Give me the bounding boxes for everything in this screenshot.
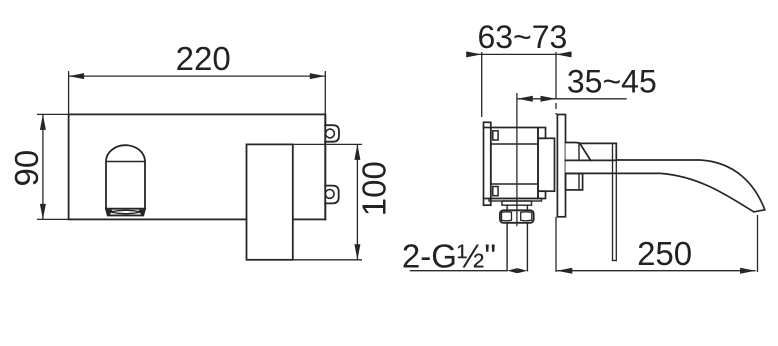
- dimension texts: [8, 19, 692, 274]
- arrow dim 100 top: [354, 144, 360, 160]
- arrow dim 35~45 right: [541, 96, 557, 102]
- arrow dim 100 bottom: [354, 244, 360, 259]
- body tab top: [493, 131, 498, 140]
- plate right edge over tabs: [324, 114, 326, 219]
- aerator lens: [110, 210, 141, 213]
- body tab bottom: [493, 187, 498, 196]
- body step top: [538, 128, 546, 139]
- svg-text:90: 90: [8, 150, 45, 187]
- arrow dim 220 left: [69, 73, 85, 79]
- svg-text:63~73: 63~73: [477, 19, 567, 55]
- wall escutcheon plate side view: [557, 115, 565, 217]
- svg-text:250: 250: [637, 235, 692, 272]
- handle base: [566, 143, 591, 161]
- dim 220 line: [69, 75, 326, 77]
- dim 90 line: [42, 114, 44, 219]
- collar: [502, 201, 532, 205]
- aerator dark corner left: [107, 210, 113, 215]
- arrow dim 250 left: [557, 268, 573, 274]
- wall plate front view: [69, 114, 326, 219]
- aerator band: [106, 209, 145, 216]
- svg-text:100: 100: [356, 161, 393, 216]
- leader 2-G1/2: [410, 270, 507, 272]
- mounting hole top: [326, 129, 335, 138]
- arrow pipe width left: [507, 268, 517, 273]
- dim 63~73 line: [467, 53, 572, 55]
- mounting tab bottom: [325, 186, 339, 204]
- hex nut: [500, 210, 534, 223]
- centerline of valve: [516, 93, 518, 226]
- aerator dark corner right: [139, 210, 145, 215]
- mounting bracket: [484, 122, 491, 205]
- svg-text:220: 220: [176, 40, 231, 77]
- svg-text:2-G½": 2-G½": [402, 237, 496, 274]
- spout connector under spout: [566, 174, 583, 190]
- arrow dim 90 bottom: [40, 204, 46, 220]
- arrow dim 35~45 left: [517, 96, 533, 102]
- svg-text:35~45: 35~45: [567, 64, 657, 100]
- arrow dim 90 top: [40, 114, 46, 129]
- arrow dim 250 right: [740, 268, 756, 274]
- dim 100 line: [356, 144, 358, 259]
- valve body: [491, 128, 538, 199]
- dim 63~73 extension left: [481, 52, 483, 117]
- pipe neck: [506, 205, 508, 210]
- wall line dashed top: [555, 52, 557, 115]
- dim 250 line: [557, 270, 756, 272]
- handle lever arm: [580, 143, 616, 160]
- spout front view body: [106, 145, 145, 209]
- handle front view: [247, 144, 293, 259]
- arrowheads: [40, 51, 756, 273]
- dim 100 extension lines: [247, 143, 363, 145]
- arrow dim 63~73 left outside: [466, 51, 482, 57]
- arrow dim 220 right: [310, 73, 326, 79]
- dim 35~45 line: [517, 98, 626, 100]
- dim 90 extension lines: [37, 113, 69, 115]
- wall line bottom: [555, 217, 557, 272]
- body step bottom: [538, 191, 546, 198]
- spout side view: [566, 160, 765, 212]
- washer flange: [489, 198, 542, 201]
- handle rod: [612, 143, 614, 260]
- mounting tab top: [325, 125, 339, 142]
- dim 220 extension lines: [68, 71, 70, 114]
- spout front view chord line: [106, 161, 145, 163]
- arrow pipe width right: [517, 268, 527, 273]
- dim 250 right extension: [757, 215, 759, 272]
- wall sleeve: [538, 138, 555, 191]
- arrow dim 63~73 right outside: [556, 51, 572, 57]
- mounting hole bottom: [325, 190, 334, 199]
- threaded pipe: [506, 223, 508, 271]
